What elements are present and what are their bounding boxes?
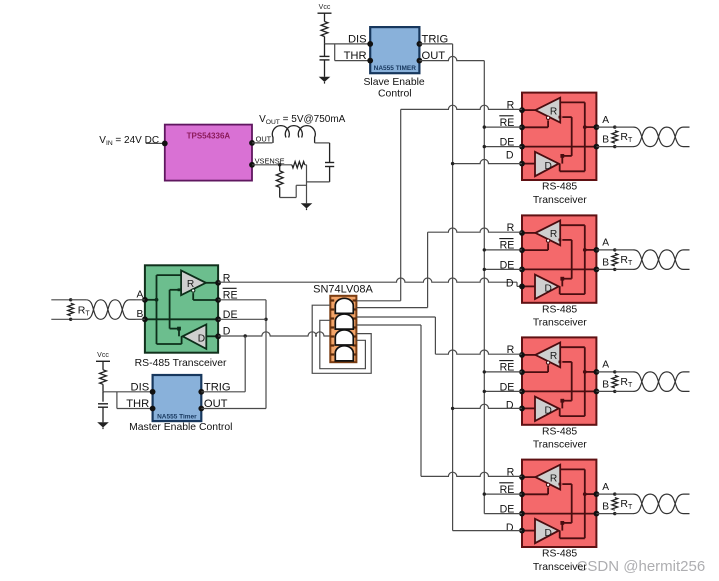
- node RT bottom (master): [69, 318, 72, 321]
- twisted pair (master): [86, 300, 135, 320]
- pin TRIG (master): [198, 389, 204, 395]
- wire D (slave 3): [453, 404, 522, 408]
- twisted pair (slave 1): [634, 127, 690, 147]
- node VSENSE junction: [278, 163, 281, 166]
- svg-text:Vcc: Vcc: [319, 4, 331, 11]
- wire DE (master): [218, 318, 266, 320]
- pin VIN: [162, 141, 168, 147]
- svg-text:D: D: [506, 400, 514, 412]
- transceiver U6 RS-485 slave 1: [522, 93, 596, 180]
- svg-text:DIS: DIS: [348, 33, 367, 45]
- svg-text:RS-485: RS-485: [542, 182, 577, 193]
- transceiver U9 RS-485 slave 4: [522, 460, 596, 547]
- svg-text:A: A: [602, 115, 609, 126]
- wire A to pair (slave 1): [615, 126, 634, 128]
- node D tap (slave 3): [451, 407, 454, 410]
- svg-text:R: R: [550, 473, 557, 484]
- node RT top (master): [69, 298, 72, 301]
- svg-text:D: D: [545, 528, 552, 539]
- wire DE (slave 3): [484, 390, 522, 392]
- wire RE (slave 4): [484, 493, 522, 495]
- ground (TPS output): [301, 203, 313, 208]
- wire bus A stub left: [51, 299, 70, 301]
- svg-text:Transceiver: Transceiver: [533, 440, 587, 451]
- wire vertical TRIG net bus: [452, 44, 454, 531]
- ground (master timer): [97, 422, 109, 427]
- svg-text:THR: THR: [344, 50, 367, 62]
- wire R1 to DIS node: [324, 37, 326, 44]
- wire VSENSE: [252, 164, 292, 166]
- wire RE (slave 3): [484, 371, 522, 373]
- wire pair to B pin (master): [136, 318, 145, 320]
- wire jog to ground vertical: [296, 184, 306, 186]
- wire OUT (slave) to bus: [419, 56, 484, 60]
- wire jog up: [295, 185, 297, 197]
- wire DIS net (master): [103, 391, 153, 393]
- svg-text:Transceiver: Transceiver: [533, 195, 587, 206]
- wire A to pair (slave 2): [615, 249, 634, 251]
- svg-text:RS-485: RS-485: [542, 549, 577, 560]
- gate U5C AND gate 3: [335, 330, 353, 345]
- svg-text:DIS: DIS: [131, 381, 150, 393]
- svg-text:D: D: [506, 278, 514, 290]
- node DE tap (slave 2): [483, 268, 486, 271]
- wire A to pair (slave 4): [615, 493, 634, 495]
- svg-text:RS-485: RS-485: [542, 427, 577, 438]
- svg-text:Master Enable Control: Master Enable Control: [129, 422, 232, 433]
- pin THR (slave): [367, 58, 373, 64]
- svg-text:D: D: [198, 334, 205, 345]
- wire B to pair (slave 3): [615, 390, 634, 392]
- node D-master TRIG tap: [244, 334, 247, 337]
- wire DE (slave 4): [484, 513, 522, 515]
- node D tap (slave 1): [451, 162, 454, 165]
- resistor R4 (master timer Vcc): [100, 370, 107, 385]
- capacitor C2 (output): [325, 162, 334, 164]
- wire A to pair (slave 3): [615, 371, 634, 373]
- wire B (slave 4): [596, 513, 614, 515]
- wire TRIG (slave) to bus: [419, 43, 452, 45]
- wire to R3: [279, 165, 281, 171]
- pin OUT (slave): [417, 58, 423, 64]
- wire B to pair (slave 4): [615, 513, 634, 515]
- pin VSENSE: [249, 162, 255, 168]
- wire R (slave 3): [435, 350, 522, 354]
- svg-text:A: A: [602, 238, 609, 249]
- wire THR (master): [117, 408, 153, 410]
- regulator U1 TPS54336A: [165, 125, 252, 181]
- wire ground vertical (TPS): [306, 165, 308, 204]
- twisted pair (slave 4): [634, 494, 690, 513]
- wire OUT (master): [201, 408, 266, 410]
- node RT bottom (slave 1): [613, 145, 616, 148]
- pin OUT (master): [198, 406, 204, 412]
- wire B (slave 3): [596, 390, 614, 392]
- ground (slave timer): [319, 77, 331, 82]
- gate U5 SN74LV08A: [330, 296, 356, 362]
- transceiver U8 RS-485 slave 3: [522, 337, 596, 424]
- wire RE (master) to OUT net: [218, 299, 266, 301]
- svg-text:A: A: [602, 360, 609, 371]
- node RE tap (slave 4): [483, 492, 486, 495]
- wire A (slave 2): [596, 249, 614, 251]
- wire A to pair (master): [71, 299, 87, 301]
- wire vertical R net slave 2: [427, 232, 429, 307]
- node RT top (slave 1): [613, 125, 616, 128]
- svg-text:THR: THR: [126, 398, 149, 410]
- resistor R3 (feedback bottom): [276, 171, 283, 188]
- wire jog to D pin (slave 2): [516, 282, 518, 286]
- node RT bottom (slave 2): [613, 268, 616, 271]
- svg-text:D: D: [545, 284, 552, 295]
- node DE joins OUT net: [264, 318, 267, 321]
- timer U4 NA555 (Master Enable Control): [153, 375, 202, 421]
- wire R (slave 1): [401, 105, 522, 109]
- svg-text:R: R: [550, 106, 557, 117]
- wire AND2 out to R (slave 2) net: [356, 307, 427, 309]
- svg-text:TPS54336A: TPS54336A: [187, 132, 231, 141]
- wire R (slave 2): [428, 228, 522, 232]
- pin OUT (TPS): [249, 140, 255, 146]
- wire vertical R net slave 4: [420, 325, 422, 476]
- pin TRIG (slave): [417, 41, 423, 47]
- wire D (slave 4): [453, 530, 522, 532]
- wire C3 to ground: [102, 408, 104, 423]
- node RE tap (slave 3): [483, 370, 486, 373]
- wire vertical OUT net bus: [483, 61, 485, 514]
- wire DIS net (slave): [325, 43, 371, 45]
- wire pair to A pin (master): [136, 299, 145, 301]
- svg-text:R: R: [187, 279, 194, 290]
- pin DIS (master): [150, 389, 156, 395]
- resistor RT (slave 4): [612, 498, 618, 511]
- inductor L1: [272, 126, 315, 143]
- wire DE (slave 2): [484, 268, 522, 270]
- wire Vcc to R1: [324, 13, 326, 21]
- wire wrap inner (gate4 out to gate2 input): [320, 320, 366, 368]
- wire vertical R net slave 1: [400, 109, 402, 300]
- wire TRIG (master): [201, 391, 245, 393]
- svg-text:D: D: [545, 406, 552, 417]
- wire node to C1: [324, 44, 326, 56]
- resistor R2 (feedback top): [292, 162, 305, 168]
- resistor RT (master): [68, 303, 74, 315]
- svg-text:A: A: [137, 289, 144, 300]
- gate U5D AND gate 4: [335, 346, 353, 361]
- svg-text:D: D: [545, 161, 552, 172]
- capacitor C3 (master timer): [98, 403, 108, 405]
- wire R3 down: [279, 187, 281, 197]
- node RT bottom (slave 3): [613, 390, 616, 393]
- wire wrap outer (gate3 out to gate1 input): [312, 305, 371, 373]
- node RT top (slave 2): [613, 248, 616, 251]
- svg-text:SN74LV08A: SN74LV08A: [313, 283, 373, 295]
- wire vertical to TRIG (master timer): [244, 336, 246, 392]
- wire DE (slave 1): [484, 146, 522, 148]
- wire THR to DIS net (master): [116, 392, 118, 409]
- wire jog D pin (slave 2): [517, 285, 522, 287]
- node RE tap (slave 2): [483, 248, 486, 251]
- resistor RT (slave 1): [612, 131, 618, 144]
- svg-text:NA555 TIMER: NA555 TIMER: [374, 65, 417, 72]
- wire R (slave 4): [421, 472, 522, 476]
- wire AND4 out to R (slave 4) net: [356, 324, 421, 326]
- wire C2 to gnd rail: [329, 167, 331, 182]
- transceiver U7 RS-485 slave 2: [522, 215, 596, 302]
- capacitor C1 (slave timer): [320, 55, 330, 57]
- wire A (slave 1): [596, 126, 614, 128]
- wire vertical R net slave 3: [434, 317, 436, 354]
- wire B to pair (slave 1): [615, 146, 634, 148]
- wire B to pair (master): [71, 318, 87, 320]
- node RE tap (slave 1): [483, 125, 486, 128]
- twisted pair (slave 3): [634, 372, 690, 392]
- svg-text:NA555 Timer: NA555 Timer: [157, 413, 197, 420]
- resistor RT (slave 2): [612, 253, 618, 266]
- wire D (master) to AND gate 3 input: [218, 332, 330, 336]
- svg-text:Vcc: Vcc: [97, 352, 109, 359]
- resistor RT (slave 3): [612, 375, 618, 388]
- wire R2 to ground vertical: [305, 164, 307, 166]
- wire B (slave 1): [596, 146, 614, 148]
- svg-text:R: R: [550, 229, 557, 240]
- wire VIN input: [146, 142, 165, 144]
- wire C1 to ground: [324, 60, 326, 77]
- svg-text:B: B: [602, 502, 609, 513]
- svg-text:CSDN @hermit256: CSDN @hermit256: [577, 558, 706, 575]
- node RT top (slave 4): [613, 492, 616, 495]
- svg-text:B: B: [602, 257, 609, 268]
- svg-text:A: A: [602, 482, 609, 493]
- wire RE (slave 2): [484, 249, 522, 251]
- wire R3 bottom right: [280, 197, 297, 199]
- node RT bottom (slave 4): [613, 512, 616, 515]
- wire A (slave 3): [596, 371, 614, 373]
- wire node to C3: [102, 392, 104, 402]
- pin THR (master): [150, 406, 156, 412]
- svg-text:OUT: OUT: [256, 135, 272, 144]
- svg-text:B: B: [137, 309, 144, 320]
- svg-text:Transceiver: Transceiver: [533, 562, 587, 573]
- wire A (slave 4): [596, 493, 614, 495]
- svg-text:Transceiver: Transceiver: [533, 318, 587, 329]
- resistor R1 (slave timer Vcc): [321, 22, 328, 37]
- wire vertical OUT net (master): [265, 300, 267, 409]
- wire THR (slave): [335, 60, 371, 62]
- node DE tap (slave 3): [483, 390, 486, 393]
- wire L1 to C2: [315, 142, 330, 144]
- wire C2 bottom to ground node: [307, 181, 330, 183]
- node RT top (slave 3): [613, 370, 616, 373]
- svg-text:B: B: [602, 135, 609, 146]
- wire OUT to L1: [252, 142, 272, 144]
- gate U5A AND gate 1: [335, 298, 353, 313]
- gate U5B AND gate 2: [335, 314, 353, 329]
- node DE tap (slave 1): [483, 145, 486, 148]
- wire AND3 out to R (slave 3) net: [356, 316, 435, 318]
- svg-text:Control: Control: [378, 88, 412, 99]
- wire AND1 out to R (slave 1) net: [356, 300, 400, 302]
- wire R4 to DIS node: [102, 384, 104, 392]
- svg-text:Slave Enable: Slave Enable: [363, 77, 424, 88]
- svg-text:R: R: [550, 351, 557, 362]
- wire Vcc to R4: [102, 361, 104, 370]
- svg-text:RS-485: RS-485: [542, 305, 577, 316]
- wire THR to DIS net (slave): [334, 44, 336, 61]
- svg-text:D: D: [506, 150, 514, 162]
- transceiver U3 RS-485 master: [145, 265, 218, 352]
- wire D (slave 1): [453, 159, 522, 163]
- twisted pair (slave 2): [634, 250, 690, 270]
- wire RE (slave 1): [484, 126, 522, 128]
- wire net R-master to D (slave 2): [218, 278, 517, 282]
- wire B (slave 2): [596, 268, 614, 270]
- svg-text:RS-485 Transceiver: RS-485 Transceiver: [135, 358, 227, 369]
- svg-text:B: B: [602, 379, 609, 390]
- pin DIS (slave): [367, 41, 373, 47]
- timer U2 NA555 (Slave Enable Control): [370, 27, 419, 73]
- wire B to pair (slave 2): [615, 268, 634, 270]
- pins DIP stubs (SN74LV08A): [330, 299, 334, 301]
- svg-text:D: D: [506, 522, 514, 534]
- wire down to C2: [329, 143, 331, 162]
- wire bus B stub left: [51, 318, 70, 320]
